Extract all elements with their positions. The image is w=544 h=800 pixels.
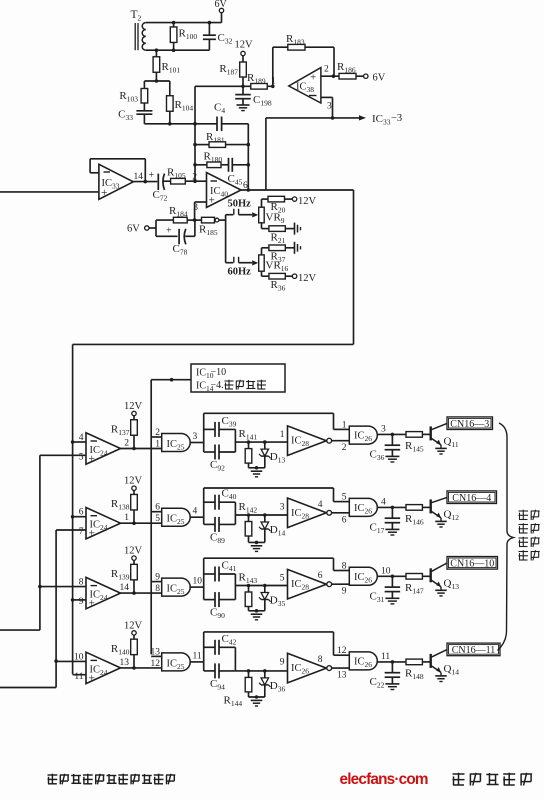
svg-text:D13: D13 xyxy=(270,451,286,465)
capacitor C40 row 2 xyxy=(204,488,237,510)
node junction xyxy=(332,74,336,78)
op-amp IC38 xyxy=(289,68,321,103)
svg-text:R37: R37 xyxy=(271,251,286,265)
svg-text:−10: −10 xyxy=(211,367,227,378)
svg-text:Q14: Q14 xyxy=(444,663,460,677)
label pin 11 xyxy=(381,652,390,662)
svg-text:5: 5 xyxy=(342,493,347,503)
svg-text:12V: 12V xyxy=(298,196,317,207)
wire row 4 opamp output xyxy=(121,667,162,669)
brace to inverter xyxy=(498,423,514,651)
svg-text:elecfans·com: elecfans·com xyxy=(340,771,428,788)
wire row 3 noninverting input xyxy=(73,599,86,601)
svg-text:14: 14 xyxy=(134,172,144,182)
resistor R142 xyxy=(239,501,258,542)
wire row 1 inverter out xyxy=(332,440,350,442)
svg-text:R145: R145 xyxy=(405,440,424,454)
node junction xyxy=(170,378,174,382)
svg-text:2: 2 xyxy=(324,65,329,75)
terminal 12V row 2 xyxy=(124,476,143,495)
ground xyxy=(251,614,263,620)
resistor R104 xyxy=(167,81,194,124)
label pin 13 xyxy=(120,658,130,668)
resistor R181 xyxy=(195,131,248,147)
svg-text:12V: 12V xyxy=(298,273,317,284)
label to-inverter-drive xyxy=(519,510,540,561)
logo elecfans.com xyxy=(340,771,428,788)
capacitor C41 row 3 xyxy=(204,560,237,582)
inverter IC28 row 3 xyxy=(288,569,332,599)
svg-text:C32: C32 xyxy=(218,32,233,46)
terminal 12V xyxy=(292,273,316,284)
wire xyxy=(265,118,267,190)
wire row 4 inverting input xyxy=(56,660,86,662)
resistor R103 xyxy=(119,81,147,111)
capacitor C90 row 3 xyxy=(204,592,236,620)
capacitor C89 row 2 xyxy=(204,517,236,545)
ground xyxy=(251,471,263,477)
label pin 12 xyxy=(151,659,161,669)
svg-text:7: 7 xyxy=(79,527,84,537)
wire row 3 opamp output xyxy=(121,592,162,594)
svg-text:R104: R104 xyxy=(175,99,194,113)
svg-text:R20: R20 xyxy=(271,201,286,215)
label pin 8 xyxy=(318,655,323,665)
terminal 6V xyxy=(364,73,386,84)
resistor R101 xyxy=(153,50,180,81)
svg-text:+: + xyxy=(310,72,316,84)
label pin 8 xyxy=(342,562,347,572)
svg-text:2: 2 xyxy=(155,428,160,438)
wire pin 2 xyxy=(321,65,339,77)
connector CN16—11 xyxy=(447,643,500,656)
resistor R13x row 3 xyxy=(111,564,137,593)
label pin 5 xyxy=(79,453,84,463)
label pin 11 xyxy=(193,651,202,661)
label pin 9 xyxy=(79,597,84,607)
node junction xyxy=(132,521,136,525)
wire row 1 gate output xyxy=(190,442,204,444)
svg-text:R180: R180 xyxy=(204,151,223,165)
svg-text:R105: R105 xyxy=(167,167,186,181)
terminal 12V row 3 xyxy=(124,546,143,565)
wire xyxy=(247,124,249,190)
svg-text:+: + xyxy=(166,226,172,237)
wire row 4 gate2 output xyxy=(377,661,406,663)
transformer T2 xyxy=(135,23,146,51)
label pin 4 xyxy=(381,497,386,507)
svg-text:R140: R140 xyxy=(111,643,130,657)
wire row 2 block right xyxy=(234,502,236,524)
svg-text:6V: 6V xyxy=(373,73,386,84)
terminal 12V row 4 xyxy=(124,620,143,639)
svg-text:R147: R147 xyxy=(405,582,424,596)
wire row 3 inverting input xyxy=(40,586,86,588)
svg-text:12V: 12V xyxy=(235,40,254,51)
wire IC33-3 net xyxy=(266,115,366,120)
wire row 1 gate2 output xyxy=(377,433,406,435)
capacitor C78 xyxy=(156,220,195,256)
capacitor C31 row 3 xyxy=(370,576,401,604)
AND gate IC25 row 1 xyxy=(162,434,191,452)
capacitor C72 xyxy=(149,170,168,203)
svg-text:12V: 12V xyxy=(124,401,143,412)
node junction xyxy=(155,48,176,52)
node junction xyxy=(144,180,148,184)
capacitor C33 xyxy=(118,109,152,124)
resistor R147 row 3 xyxy=(405,574,430,596)
svg-text:C42: C42 xyxy=(222,633,237,647)
zener diode D14 xyxy=(259,515,285,542)
op-amp IC40 xyxy=(207,173,242,208)
wire row 1 noninverting input xyxy=(40,454,86,456)
svg-text:−3: −3 xyxy=(391,113,402,124)
wire row 1 gnd rail xyxy=(249,467,265,469)
inverter IC28 row 2 xyxy=(288,498,332,528)
svg-text:C94: C94 xyxy=(210,678,225,692)
svg-text:5: 5 xyxy=(155,514,160,524)
wire left bus B xyxy=(0,530,56,688)
svg-text:9: 9 xyxy=(342,587,347,597)
svg-text:Q11: Q11 xyxy=(444,435,459,449)
node junction xyxy=(391,433,395,437)
auto-protect box IC10-10/IC14-4 xyxy=(191,364,285,393)
svg-text:R183: R183 xyxy=(286,33,305,47)
wire row 3 block left xyxy=(204,558,334,599)
wire row 1 tap xyxy=(235,441,287,443)
wire row 3 gate2 output xyxy=(377,575,406,577)
label pin 14 xyxy=(120,583,130,593)
node junction xyxy=(247,143,251,192)
svg-text:R148: R148 xyxy=(405,667,424,681)
svg-text:1: 1 xyxy=(155,440,160,450)
wire row 2 gnd rail xyxy=(249,541,265,543)
svg-text:R184: R184 xyxy=(169,205,188,219)
transistor Q11 row 1 xyxy=(431,423,459,449)
op-amp IC24 row 2 xyxy=(86,508,121,540)
svg-text:1: 1 xyxy=(342,420,347,430)
connector CN16—10 xyxy=(447,557,498,570)
svg-text:C33: C33 xyxy=(118,109,133,123)
wire row 4 tap xyxy=(235,670,287,672)
label pin 6 xyxy=(318,571,323,581)
wire row 1 protect input xyxy=(151,436,162,438)
node junction xyxy=(193,179,197,183)
wire noninverting input xyxy=(0,191,99,193)
connector CN16—4 xyxy=(447,491,497,504)
label pin 13 xyxy=(151,647,161,657)
label pin 10 xyxy=(193,577,203,587)
caption tracking-sine-pwm-circuit xyxy=(48,774,176,785)
svg-text:CN16—10: CN16—10 xyxy=(450,559,494,570)
label pin 7 xyxy=(79,527,84,537)
wire row 1 bypass xyxy=(334,413,350,429)
AND gate IC26 row 2 xyxy=(349,498,377,516)
node junction xyxy=(193,122,197,167)
svg-text:4: 4 xyxy=(79,433,84,443)
svg-text:13: 13 xyxy=(120,658,130,668)
node junction xyxy=(71,440,75,602)
switch contact 60Hz xyxy=(226,257,259,278)
wire xyxy=(146,49,210,51)
resistor R37 xyxy=(262,245,295,264)
svg-text:C89: C89 xyxy=(210,531,225,545)
terminal 12V row 1 xyxy=(124,401,143,420)
node junction xyxy=(38,585,42,589)
svg-text:10: 10 xyxy=(381,566,391,576)
svg-text:6: 6 xyxy=(318,571,323,581)
label pin 6 xyxy=(155,503,160,513)
wire protect bus xyxy=(151,380,191,655)
capacitor C17 row 2 xyxy=(370,507,401,535)
resistor R186 xyxy=(337,61,364,79)
svg-text:1: 1 xyxy=(124,513,129,523)
resistor R13x row 4 xyxy=(111,639,137,668)
capacitor C39 row 1 xyxy=(204,415,237,437)
svg-text:C4: C4 xyxy=(214,102,225,116)
svg-text:C198: C198 xyxy=(253,94,272,108)
label pin 3 xyxy=(381,424,386,434)
label pin 2 xyxy=(192,173,197,183)
wire left bus A xyxy=(0,455,40,630)
label pin 1 xyxy=(342,420,347,430)
ground xyxy=(435,448,447,454)
svg-text:R181: R181 xyxy=(206,131,225,145)
wire switch xyxy=(225,215,227,263)
svg-text:3: 3 xyxy=(327,102,332,112)
svg-text:R101: R101 xyxy=(162,61,181,75)
svg-text:C78: C78 xyxy=(173,243,188,257)
svg-text:C92: C92 xyxy=(210,459,225,473)
node junction xyxy=(132,591,136,595)
label pin 6 xyxy=(342,515,347,525)
AND gate IC25 row 2 xyxy=(162,508,191,526)
svg-text:Q12: Q12 xyxy=(444,508,460,522)
wire row 2 inverter out xyxy=(332,512,350,514)
wire row 1 block right xyxy=(234,429,236,452)
terminal 12V xyxy=(292,196,316,207)
potentiometer VR9 xyxy=(259,199,285,229)
svg-text:12V: 12V xyxy=(124,476,143,487)
svg-text:C72: C72 xyxy=(153,189,168,203)
wire row 1 opamp output xyxy=(121,448,162,450)
resistor R20 xyxy=(262,196,293,214)
wire row 3 block right xyxy=(234,574,236,600)
node junction xyxy=(172,21,211,25)
label pin 12 xyxy=(337,646,347,656)
node junction xyxy=(391,660,395,664)
wire row 4 protect input xyxy=(151,655,162,657)
svg-text:R185: R185 xyxy=(199,224,218,238)
node junction xyxy=(247,584,267,588)
wire row 3 gate output xyxy=(190,586,204,588)
node junction xyxy=(391,506,395,510)
svg-text:R139: R139 xyxy=(111,568,130,582)
capacitor C94 row 4 xyxy=(204,663,236,691)
wire xyxy=(144,123,195,125)
resistor R13x row 2 xyxy=(111,494,137,523)
node junction xyxy=(155,79,159,83)
label pin 3 xyxy=(193,203,198,213)
wire row 3 protect input xyxy=(151,581,162,583)
AND gate IC26 row 3 xyxy=(349,567,377,585)
svg-text:C22: C22 xyxy=(370,676,385,690)
label IC33-3 xyxy=(372,113,402,127)
node junction xyxy=(247,513,267,517)
label pin 5 xyxy=(155,514,160,524)
label pin 11 xyxy=(74,672,83,682)
svg-text:9: 9 xyxy=(280,658,285,668)
wire row 3 bypass xyxy=(334,558,350,570)
svg-text:8: 8 xyxy=(79,578,84,588)
svg-text:C17: C17 xyxy=(370,521,385,535)
svg-text:2: 2 xyxy=(124,439,129,449)
wire row 2 gate output xyxy=(190,516,204,518)
ground xyxy=(435,676,447,682)
label pin 1 xyxy=(155,440,160,450)
svg-text:8: 8 xyxy=(318,655,323,665)
wire row 1 inverting input xyxy=(73,441,86,443)
svg-text:6V: 6V xyxy=(127,224,140,235)
svg-text:R146: R146 xyxy=(405,513,424,527)
wire row 3 gnd rail xyxy=(249,610,265,612)
op-amp IC24 row 3 xyxy=(86,577,121,609)
svg-text:R100: R100 xyxy=(179,28,198,42)
label pin 9 xyxy=(342,587,347,597)
svg-text:−4.: −4. xyxy=(211,380,224,391)
wire pin 3 xyxy=(195,202,207,220)
resistor R141 xyxy=(239,428,258,468)
label pin 6 xyxy=(243,181,248,191)
svg-text:R143: R143 xyxy=(239,572,258,586)
svg-text:C41: C41 xyxy=(222,560,237,574)
wire row 4 block right xyxy=(234,647,236,671)
svg-text:4: 4 xyxy=(381,497,386,507)
svg-text:C90: C90 xyxy=(210,607,225,621)
svg-text:3: 3 xyxy=(280,502,285,512)
svg-text:8: 8 xyxy=(342,562,347,572)
node junction xyxy=(255,466,259,470)
svg-text:R103: R103 xyxy=(119,90,138,104)
label pin 4 xyxy=(318,500,323,510)
label pin 8 xyxy=(79,578,84,588)
svg-text:11: 11 xyxy=(381,652,390,662)
wire row 2 bypass xyxy=(334,488,350,502)
label pin 10 xyxy=(74,652,84,662)
wire row 2 protect input xyxy=(151,511,162,513)
svg-text:13: 13 xyxy=(151,647,161,657)
label T2 xyxy=(131,9,142,23)
AND gate IC25 row 4 xyxy=(162,653,191,671)
svg-text:6: 6 xyxy=(155,503,160,513)
label pin 2 xyxy=(124,439,129,449)
resistor R100 xyxy=(170,23,197,51)
AND gate IC26 row 4 xyxy=(349,652,377,670)
wire carrier bus xyxy=(73,190,354,674)
svg-text:R138: R138 xyxy=(111,498,130,512)
ground xyxy=(385,456,399,462)
node junction xyxy=(241,85,245,89)
label pin 4 xyxy=(79,433,84,443)
node junction xyxy=(247,669,267,673)
wire row 1 block left xyxy=(204,413,334,452)
ground xyxy=(295,223,301,235)
svg-text:12V: 12V xyxy=(124,620,143,631)
svg-text:2: 2 xyxy=(342,443,347,453)
label pin 6 xyxy=(79,508,84,518)
terminal 12V xyxy=(235,40,254,61)
svg-text:8: 8 xyxy=(155,584,160,594)
AND gate IC25 row 3 xyxy=(162,578,191,596)
switch contact 50Hz xyxy=(226,199,259,218)
svg-text:D36: D36 xyxy=(270,680,286,694)
svg-text:6: 6 xyxy=(342,515,347,525)
svg-text:T2: T2 xyxy=(131,9,142,23)
svg-text:4: 4 xyxy=(318,500,323,510)
resistor R105 xyxy=(163,167,206,185)
wire row 2 block left xyxy=(204,488,334,524)
svg-text:C36: C36 xyxy=(370,448,385,462)
svg-text:R141: R141 xyxy=(239,428,258,442)
label pin 4 xyxy=(193,507,198,517)
svg-text:10: 10 xyxy=(74,652,84,662)
svg-text:5: 5 xyxy=(79,453,84,463)
svg-text:C39: C39 xyxy=(222,415,237,429)
label pin 3 xyxy=(193,432,198,442)
svg-text:R36: R36 xyxy=(271,279,286,293)
wire output pin 14 xyxy=(133,172,157,182)
svg-text:3: 3 xyxy=(193,432,198,442)
capacitor C92 row 1 xyxy=(204,445,236,473)
svg-text:6V: 6V xyxy=(215,0,228,10)
resistor R184 xyxy=(156,205,195,223)
resistor R180 and capacitor C45 xyxy=(195,151,248,187)
wire row 4 noninverting input xyxy=(73,674,86,676)
inverter IC26 row 4 xyxy=(288,653,332,683)
label pin 9 xyxy=(280,658,285,668)
AND gate IC26 row 1 xyxy=(349,426,377,444)
wire row 3 tap xyxy=(235,585,287,587)
node junction xyxy=(132,666,136,670)
node junction xyxy=(391,575,395,579)
svg-text:11: 11 xyxy=(74,672,83,682)
svg-text:R189: R189 xyxy=(247,72,266,86)
svg-text:R187: R187 xyxy=(219,63,238,77)
zener diode D36 xyxy=(259,671,285,697)
op-amp IC24 row 4 xyxy=(86,652,121,684)
zener diode D13 xyxy=(259,442,285,468)
wire node A vertical xyxy=(194,86,196,181)
ground xyxy=(295,242,301,254)
label pin 1 xyxy=(124,513,129,523)
svg-text:D35: D35 xyxy=(270,595,286,609)
node junction xyxy=(255,541,259,545)
wire row 2 opamp output xyxy=(121,522,162,524)
ground xyxy=(251,700,263,706)
label pin 2 xyxy=(342,443,347,453)
wire output pin 6 xyxy=(241,189,354,191)
node junction xyxy=(255,695,259,699)
resistor R36 xyxy=(262,273,293,292)
resistor R143 xyxy=(239,572,258,611)
wire row 2 inverting input xyxy=(73,516,86,518)
svg-text:Q13: Q13 xyxy=(444,577,460,591)
ground xyxy=(385,529,399,535)
transistor Q13 row 3 xyxy=(431,563,460,591)
ground xyxy=(435,590,447,596)
capacitor C32 xyxy=(203,23,233,51)
label pin 8 xyxy=(155,584,160,594)
